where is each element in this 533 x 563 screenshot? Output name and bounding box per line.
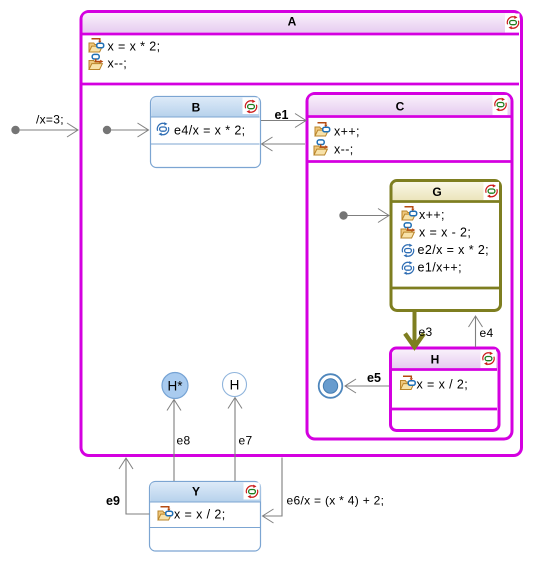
transition e5 H to termination: [345, 385, 389, 387]
state G title icon: [486, 184, 497, 198]
state B title icon: [245, 100, 256, 114]
transition e9 Y to A: [126, 458, 150, 514]
state H: [391, 348, 500, 431]
initial pseudostate (default into G): [339, 211, 347, 219]
state G reaction e1: [402, 261, 413, 275]
svg-text:e7: e7: [239, 434, 253, 448]
svg-text:e2/x = x * 2;: e2/x = x * 2;: [418, 243, 490, 257]
state A entry action: [89, 39, 104, 52]
state Y entry action: [158, 507, 173, 520]
initial pseudostate (default into A): [11, 126, 19, 134]
svg-text:x--;: x--;: [108, 57, 128, 71]
state Y title icon: [246, 485, 257, 499]
transition e1 B to C: [261, 120, 306, 122]
transition e7 Y to H: [234, 398, 236, 482]
svg-text:H: H: [230, 378, 240, 393]
svg-text:x++;: x++;: [334, 125, 360, 139]
svg-text:x = x * 2;: x = x * 2;: [108, 40, 161, 54]
svg-text:x++;: x++;: [419, 208, 445, 222]
transition e8 Y to H*: [173, 400, 175, 482]
svg-text:G: G: [432, 185, 441, 199]
state A title icon: [507, 16, 518, 30]
svg-text:x = x - 2;: x = x - 2;: [419, 226, 471, 240]
state G reaction e2: [402, 244, 413, 258]
svg-text:e5: e5: [367, 371, 381, 385]
svg-text:e9: e9: [106, 494, 120, 508]
transition e3 G to H (thick): [413, 312, 417, 344]
svg-text:e6/x = (x * 4) + 2;: e6/x = (x * 4) + 2;: [287, 494, 385, 508]
default transition /x=3;: [19, 129, 78, 131]
initial pseudostate (default into B): [103, 126, 111, 134]
svg-text:e3: e3: [419, 325, 433, 339]
termination connector: [319, 374, 343, 398]
state C exit action: [314, 140, 328, 155]
state C entry action: [315, 123, 330, 136]
svg-text:e1/x++;: e1/x++;: [418, 261, 463, 275]
deep history connector H*: [162, 373, 188, 399]
svg-text:e1: e1: [275, 108, 289, 122]
state G entry action: [402, 207, 417, 220]
svg-text:C: C: [396, 100, 405, 114]
svg-text:Y: Y: [192, 485, 200, 499]
state G: [391, 181, 501, 311]
transition e6 A to Y: [263, 458, 283, 517]
default transition to G: [348, 215, 390, 217]
svg-text:x = x / 2;: x = x / 2;: [174, 508, 226, 522]
transition e4 H to G: [475, 316, 477, 347]
state G exit action: [401, 223, 415, 238]
state B: [151, 97, 261, 168]
state A exit action: [89, 54, 103, 69]
svg-text:/x=3;: /x=3;: [36, 113, 64, 127]
state C title icon: [495, 98, 506, 112]
svg-text:x = x / 2;: x = x / 2;: [417, 378, 469, 392]
svg-text:e4: e4: [480, 326, 494, 340]
svg-text:B: B: [192, 101, 201, 115]
state A: [81, 12, 522, 456]
state H title icon: [483, 352, 494, 366]
transition C to B (unlabeled): [262, 143, 306, 145]
history connector H: [223, 373, 247, 397]
svg-text:A: A: [288, 15, 297, 29]
svg-text:x--;: x--;: [334, 143, 354, 157]
state B reaction e4: [157, 122, 168, 136]
svg-text:H*: H*: [167, 379, 183, 394]
state C: [307, 94, 512, 440]
svg-text:e8: e8: [177, 434, 191, 448]
svg-text:H: H: [431, 353, 440, 367]
default transition to B: [111, 129, 149, 131]
svg-text:e4/x = x * 2;: e4/x = x * 2;: [174, 124, 246, 138]
state H entry action: [401, 376, 416, 389]
state Y: [150, 482, 261, 552]
